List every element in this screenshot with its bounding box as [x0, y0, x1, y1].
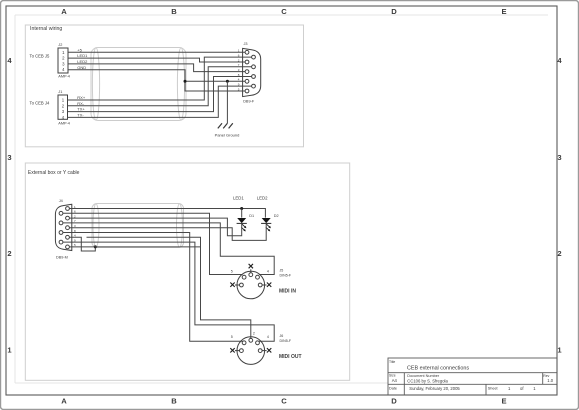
svg-text:3: 3	[7, 153, 11, 162]
svg-text:MIDI IN: MIDI IN	[279, 288, 296, 294]
svg-text:External box or Y cable: External box or Y cable	[28, 170, 80, 176]
cable bundle shield (external)	[92, 204, 184, 248]
zone letters top	[61, 7, 506, 16]
wire net RX- : J4 row4 to MIDI IN pin4	[63, 223, 274, 275]
svg-text:B: B	[171, 7, 177, 16]
svg-text:J6: J6	[280, 334, 284, 338]
wire net LED1 : J2.2 to J3 row3 (pin2)	[68, 58, 245, 62]
wire net GND : J2.4 down the column at x=185	[68, 70, 245, 91]
connector J2 AMP-4	[58, 48, 68, 73]
wire net GND row7 segment to MIDI OUT pin2	[87, 237, 251, 338]
svg-text:AMP-4: AMP-4	[58, 121, 70, 125]
svg-text:2: 2	[253, 332, 255, 336]
svg-text:5: 5	[231, 335, 233, 339]
svg-text:DIN5-F: DIN5-F	[280, 273, 292, 277]
connector J3 DB9-F shell	[243, 48, 261, 96]
svg-text:Title: Title	[389, 360, 395, 364]
no-connect X marks J5	[230, 264, 271, 287]
svg-text:B: B	[171, 397, 177, 406]
junction dot GND at x=185	[184, 80, 187, 83]
svg-text:J4: J4	[59, 199, 63, 203]
svg-text:4: 4	[267, 335, 269, 339]
wire net +5 rail to LEDs : J4 row1	[69, 209, 265, 218]
svg-text:GND: GND	[77, 65, 86, 70]
svg-text:E: E	[501, 7, 506, 16]
svg-text:3: 3	[557, 153, 561, 162]
section box External box or Y cable	[25, 163, 349, 380]
svg-text:A: A	[61, 397, 67, 406]
svg-text:DIN5-F: DIN5-F	[280, 339, 292, 343]
svg-text:C: C	[281, 7, 287, 16]
svg-text:J1: J1	[58, 90, 62, 94]
svg-text:E: E	[501, 397, 506, 406]
LED D1	[237, 218, 247, 231]
svg-text:CC106 by S. Sfregola: CC106 by S. Sfregola	[407, 379, 448, 384]
svg-text:D: D	[391, 7, 397, 16]
chassis ground symbol Panel Ground	[218, 123, 233, 128]
no-connect X marks J6	[230, 348, 271, 352]
zone letters bottom	[61, 397, 506, 406]
wire net +5 : J2.1 to J3 row1 (pin1)	[68, 51, 245, 53]
svg-text:RX-: RX-	[77, 101, 85, 106]
svg-text:MIDI OUT: MIDI OUT	[279, 354, 302, 360]
svg-text:LED2: LED2	[257, 196, 268, 201]
wire GND branch to J3 row7 (pin4)	[185, 80, 245, 82]
svg-text:+5: +5	[77, 47, 82, 52]
svg-text:DB9-M: DB9-M	[56, 256, 68, 260]
junction dot GND at x=227.4	[226, 80, 229, 83]
svg-text:A: A	[61, 7, 67, 16]
J4 pin circles left column (pins 6,7,8,9)	[59, 211, 63, 244]
svg-text:LED2: LED2	[77, 59, 88, 64]
connector J1 AMP-4	[58, 95, 68, 119]
svg-text:To CEB J5: To CEB J5	[30, 53, 50, 58]
wire LED1 anode drop	[241, 209, 243, 218]
wire net RX- : J1.2 to J3 row4 (pin7)	[68, 67, 252, 106]
svg-text:D1: D1	[249, 214, 254, 218]
J3 pin number labels	[238, 49, 240, 92]
svg-text:C: C	[281, 397, 287, 406]
wire net RX+ : J4 row2 to MIDI IN pin5	[63, 213, 243, 274]
wire net GND row9	[69, 246, 200, 248]
svg-text:Panel Ground: Panel Ground	[215, 133, 240, 138]
wire net TX+ : J1.3 to J3 row6 (pin8)	[68, 77, 252, 112]
svg-text:J5: J5	[280, 269, 284, 273]
svg-text:1.0: 1.0	[547, 378, 553, 383]
svg-text:DB9-F: DB9-F	[243, 100, 255, 104]
junction dot LED1 anode	[240, 207, 243, 210]
svg-text:Sunday, February 20, 2005: Sunday, February 20, 2005	[409, 386, 460, 391]
junction dot J4 pin5 net	[94, 245, 97, 248]
section box Internal wiring	[25, 25, 303, 147]
wire net TX- : J4 row8 to MIDI OUT pin4	[63, 242, 274, 341]
LED D2	[261, 218, 271, 231]
MIDI IN connector J5	[235, 269, 267, 299]
MIDI OUT connector J6	[235, 337, 267, 365]
svg-text:TX-: TX-	[77, 113, 84, 118]
svg-text:D: D	[391, 397, 397, 406]
wire net LED2 : J2.3 to J3 row5 (pin3)	[68, 64, 245, 72]
zone numbers left	[7, 56, 12, 355]
wire net LED2 cathode : J4 row5	[69, 223, 266, 240]
wire jumper J4 pin4 to pin5	[69, 237, 95, 251]
svg-text:Internal wiring: Internal wiring	[30, 26, 62, 32]
J1 pin numbers	[62, 98, 65, 121]
J4 pin number labels	[74, 205, 76, 247]
wire GND drop to panel ground	[226, 81, 228, 123]
title block outline	[388, 358, 557, 395]
wire net TX- : J1.4 to J3 row8 (pin9)	[68, 86, 252, 117]
wire net LED1 cathode : J4 row3	[69, 218, 241, 236]
svg-text:A4: A4	[392, 378, 398, 383]
J4 pin circles right column (pins 1,2,3,4,5)	[66, 207, 70, 249]
svg-text:AMP-4: AMP-4	[58, 75, 70, 79]
svg-text:To CEB J4: To CEB J4	[30, 101, 50, 106]
zone numbers right	[557, 56, 562, 355]
connector J4 DB9-M shell	[55, 204, 71, 250]
J3 pin circles left column (pins 1,2,3,4,5)	[245, 50, 249, 93]
wire net TX+ : J4 row6 to MIDI OUT pin5	[63, 233, 243, 342]
svg-text:CEB external connections: CEB external connections	[407, 365, 469, 371]
svg-text:5: 5	[231, 269, 233, 273]
svg-text:Date: Date	[389, 387, 397, 391]
svg-text:J2: J2	[58, 43, 62, 47]
svg-text:2: 2	[7, 249, 11, 258]
svg-text:RX+: RX+	[77, 95, 86, 100]
svg-text:4: 4	[267, 269, 269, 273]
svg-text:LED1: LED1	[77, 53, 88, 58]
J3 pin circles right column (pins 6,7,8,9)	[252, 55, 256, 88]
cable bundle shield (internal)	[91, 48, 186, 121]
svg-text:LED1: LED1	[233, 196, 244, 201]
wire net RX+ : J1.1 to J3 row2 (pin6)	[68, 57, 252, 100]
svg-text:D2: D2	[274, 214, 279, 218]
J2 pin numbers	[62, 50, 65, 72]
svg-text:TX+: TX+	[77, 107, 85, 112]
svg-text:J3: J3	[244, 42, 248, 46]
svg-text:Sheet: Sheet	[488, 387, 499, 391]
svg-text:Size: Size	[389, 374, 396, 378]
svg-text:2: 2	[557, 249, 561, 258]
